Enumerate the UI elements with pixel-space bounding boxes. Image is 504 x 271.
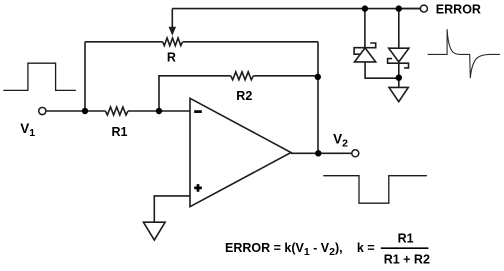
wire left vertical (R to input node) [84,42,86,111]
wire op-amp output row [291,152,352,154]
ground below op-amp + [143,222,165,240]
wire left zener branch top [364,9,366,48]
wire input row [46,110,106,112]
op-amp minus sign [194,110,202,113]
svg-text:R2: R2 [236,89,252,103]
wire R1 to op-amp [128,110,190,112]
waveform ERROR spike [428,29,500,78]
svg-text:R1: R1 [112,125,128,139]
zener diode D1 cathode bar [354,43,376,54]
wire left zener bottom to right branch [365,62,399,78]
wire pot wiper arrow stem [171,9,173,29]
node inverting input junction [156,108,162,114]
wire R row left [85,41,163,43]
wire right zener branch top [398,9,400,49]
node zener D2 top junction [396,5,402,11]
wire ERROR terminal stub [400,8,420,10]
svg-text:V2: V2 [333,132,348,150]
op-amp plus sign [194,184,202,192]
resistor R1 [105,107,128,115]
node input junction [82,108,88,114]
terminal ERROR circle [420,5,427,12]
terminal V2 output circle [352,150,359,157]
svg-text:k =: k = [357,241,375,255]
svg-text:R: R [167,51,176,65]
node zener D1 top junction [362,5,368,11]
resistor R (potentiometer body) [163,38,183,46]
formula fraction bar [381,247,429,249]
zener diode D2 cathode bar [388,59,409,68]
svg-text:ERROR: ERROR [436,2,481,16]
waveform V2 output inverted pulse [323,176,427,204]
wire R2 left leg [159,76,231,111]
waveform V1 input pulse [3,63,76,90]
ground below zeners [389,87,408,101]
svg-text:R1: R1 [398,232,414,246]
wire R row right [183,41,318,43]
wire right vertical (feedback bus) [317,42,319,154]
op-amp U1 body [190,98,291,206]
wire op-amp + input [154,196,190,222]
wire right zener bottom to ground [398,63,400,87]
node feedback/R2 junction [315,74,321,80]
zener diode D1 triangle [355,48,376,62]
pot wiper arrowhead [169,27,175,34]
wire top rail from pot wiper to ERROR terminal [172,8,420,10]
svg-text:ERROR = k(V1 - V2),: ERROR = k(V1 - V2), [225,241,343,258]
resistor R2 [231,72,254,80]
terminal V1 input circle [39,107,46,114]
svg-text:R1 + R2: R1 + R2 [384,253,430,267]
zener diode D2 triangle [389,48,409,62]
svg-text:V1: V1 [20,121,35,139]
wire R2 right [253,75,318,77]
node output junction [315,150,321,156]
node zener bottom junction [396,75,402,81]
